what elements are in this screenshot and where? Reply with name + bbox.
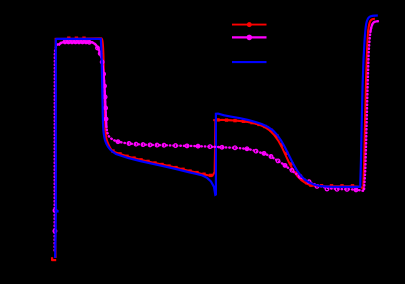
red square markers along curve	[67, 37, 354, 188]
small blue nub on left vertical	[56, 210, 59, 213]
legend red entry	[232, 24, 267, 26]
magenta circle markers	[53, 40, 358, 233]
red curve (solid with square markers)	[52, 19, 375, 261]
legend magenta entry	[232, 36, 267, 38]
legend blue entry	[232, 61, 267, 63]
magenta curve (dotted)	[53, 21, 379, 250]
magenta dots crossing the blue spike	[215, 146, 220, 149]
solid magenta tip top-right	[370, 21, 378, 33]
magenta solid top bar and first fall overlay	[58, 42, 106, 128]
legend	[232, 22, 267, 62]
solid red tip top-right	[368, 19, 375, 33]
blue curve (solid)	[55, 16, 378, 258]
